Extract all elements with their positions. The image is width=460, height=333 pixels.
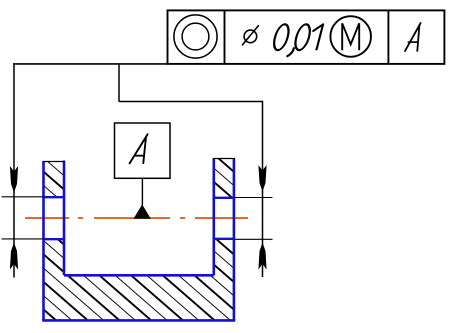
frame divider 1 [224, 10, 226, 64]
extension line right lower [234, 238, 273, 240]
centerline (axis, red dash-dot) [25, 217, 248, 219]
part outline left wall outer edge (blue) [42, 161, 45, 320]
datum triangle [134, 204, 151, 218]
hatching (section fill of part) [44, 159, 234, 321]
tolerance value 0,01 [272, 24, 324, 50]
leader wire left vertical [13, 64, 15, 278]
extension line left lower [2, 238, 44, 240]
right hole top edge (blue) [213, 197, 236, 199]
leader wire right vertical [262, 101, 264, 277]
part outline left wall inner edge (blue) [63, 161, 66, 276]
tolerance value comma [287, 48, 294, 56]
datum box [115, 123, 171, 178]
left hole bottom edge (blue) [43, 238, 66, 240]
extension line left upper [2, 196, 44, 198]
left wall top edge (thin black) [43, 161, 65, 163]
diameter symbol [242, 25, 259, 45]
leader wire drop from frame [118, 64, 120, 102]
arrow left down [10, 166, 18, 193]
M modifier circle [330, 16, 371, 57]
part outline right wall inner edge (blue) [213, 159, 216, 276]
extension line right upper [234, 197, 273, 199]
leader wire from frame bottom extended left [13, 63, 168, 65]
part outline bottom edge (blue) [42, 319, 235, 322]
feature control frame [168, 10, 445, 64]
frame divider 2 [387, 10, 389, 64]
M modifier letter [342, 23, 359, 50]
arrow left up [10, 243, 18, 270]
datum leader line [141, 178, 143, 205]
datum letter A in box [130, 134, 148, 163]
arrow right up [258, 243, 266, 270]
datum reference letter A [405, 23, 421, 51]
leader wire horizontal connector [119, 101, 263, 103]
part outline right wall outer edge (blue) [233, 158, 236, 320]
part outline cavity bottom (blue) [64, 274, 214, 277]
concentricity symbol inner circle [182, 23, 209, 50]
arrow right down [258, 165, 266, 192]
right wall top edge (thin black) [213, 158, 235, 160]
concentricity symbol outer circle [174, 15, 217, 58]
right hole bottom edge (blue) [213, 238, 236, 240]
left hole top edge (blue) [43, 196, 66, 198]
